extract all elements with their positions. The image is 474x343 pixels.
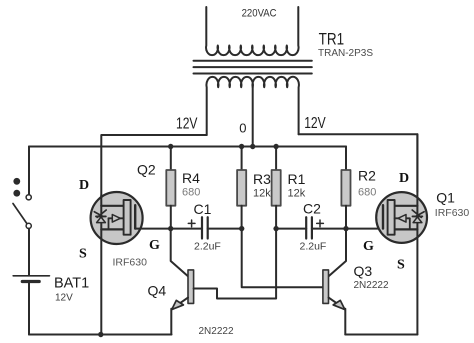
mosfet Q2 body diode bent tick (94, 210, 106, 217)
node junction Q2 source on bottom rail (98, 332, 103, 337)
svg-text:BAT1: BAT1 (54, 276, 89, 292)
resistor R3 bottom lead (241, 206, 243, 229)
mosfet Q1 source arrow head (398, 215, 406, 223)
svg-text:12V: 12V (304, 115, 326, 132)
svg-text:Q3: Q3 (354, 263, 373, 279)
transformer TR1 center tap wire to 12V rail (252, 87, 254, 146)
mosfet Q1 source stub (394, 228, 418, 230)
mosfet Q1 body diode bent tick (412, 210, 424, 217)
svg-text:R4: R4 (182, 170, 200, 186)
switch SW1 bottom terminal (26, 223, 31, 228)
svg-text:S: S (79, 247, 87, 262)
switch actuator dot 1 (13, 178, 20, 185)
svg-text:G: G (149, 238, 160, 253)
mosfet Q1 source arrow line (395, 217, 410, 219)
svg-text:D: D (79, 178, 89, 193)
svg-text:C1: C1 (194, 201, 212, 217)
node junction R1 top (273, 144, 278, 149)
mosfet Q2 body diode cathode bar (96, 215, 106, 217)
transistor Q3 base bar (323, 270, 329, 304)
svg-text:220VAC: 220VAC (242, 7, 277, 19)
transistor Q4 emitter (171, 298, 188, 335)
mosfet Q2 body diode triangle (97, 217, 106, 223)
mosfet Q1 body diode cathode bar (413, 215, 423, 217)
resistor R4 bottom lead (170, 206, 172, 229)
svg-text:12V: 12V (55, 293, 73, 304)
svg-text:2N2222: 2N2222 (354, 280, 389, 291)
svg-text:2.2uF: 2.2uF (300, 241, 327, 253)
wire: Q1 drain/source lead vertical (416, 134, 418, 334)
node D junction (R2/C2/Q1 gate/Q3 collector) (343, 226, 348, 231)
capacitor C1 left plate (201, 217, 203, 238)
svg-text:R3: R3 (253, 171, 271, 187)
mosfet Q2 drain stub (101, 205, 124, 207)
wire: bottom right ground rail (345, 334, 417, 336)
svg-text:12k: 12k (288, 188, 306, 200)
resistor R1 body (272, 170, 281, 206)
capacitor C2 left plate (305, 217, 307, 238)
svg-text:680: 680 (182, 187, 200, 199)
capacitor C1 plus sign (188, 220, 195, 227)
svg-text:R1: R1 (288, 171, 306, 187)
svg-text:D: D (399, 171, 409, 186)
mosfet Q1 arrow to source connector (409, 218, 411, 229)
transformer TR1 secondary winding (206, 7, 298, 55)
node B junction (R3/C1) (239, 226, 244, 231)
svg-text:TRAN-2P3S: TRAN-2P3S (318, 48, 373, 59)
capacitor C2 plus sign (317, 220, 324, 227)
mosfet Q2 arrow to source connector (108, 218, 110, 229)
svg-text:G: G (363, 239, 374, 254)
svg-text:Q2: Q2 (137, 162, 156, 178)
switch SW1 top terminal (26, 195, 31, 200)
wire: node C R1 bottom to C2 left plate (276, 228, 306, 230)
svg-text:680: 680 (358, 187, 376, 199)
switch SW1 blade (13, 204, 27, 224)
wire: battery branch from rail to switch (28, 147, 30, 195)
mosfet Q2 source arrow line (109, 217, 124, 219)
capacitor C1 right plate (207, 217, 209, 238)
wire: Q2 gate to node A and C1 left plate (135, 228, 202, 230)
transistor Q3 emitter (329, 298, 346, 335)
resistor R1 top lead (275, 147, 277, 171)
node junction R3 top (239, 144, 244, 149)
resistor R3 body (237, 170, 246, 206)
svg-text:S: S (397, 258, 405, 273)
wire: left drain feed from transformer to Q2 drain (101, 135, 206, 197)
svg-text:2.2uF: 2.2uF (194, 241, 221, 253)
wire: node D to Q1 gate (346, 228, 383, 230)
svg-text:12k: 12k (253, 188, 271, 200)
resistor R4 top lead (170, 147, 172, 171)
mosfet Q1 body (376, 192, 427, 243)
mosfet Q1 body diode triangle (413, 217, 422, 223)
mosfet Q2 source arrow head (112, 215, 120, 223)
svg-text:TR1: TR1 (319, 30, 345, 48)
wire: node A down to Q4 collector (171, 229, 188, 277)
svg-text:IRF630: IRF630 (435, 207, 470, 219)
node A junction (R4/C1/Q2 gate/Q4 collector) (168, 226, 173, 231)
node junction R4 top (168, 144, 173, 149)
svg-text:Q4: Q4 (148, 283, 167, 299)
resistor R2 top lead from rail corner (345, 147, 347, 171)
transistor Q4 emitter arrow head (172, 300, 184, 309)
mosfet Q2 source stub (101, 228, 124, 230)
resistor R1 bottom lead (275, 206, 277, 229)
wire: node D down to Q3 collector (329, 229, 346, 277)
resistor R4 body (166, 170, 175, 206)
wire: C2 right plate to node D (312, 228, 346, 230)
battery BAT1 negative plate (22, 280, 39, 283)
mosfet Q2 gate bar (134, 205, 136, 228)
resistor R2 body (341, 170, 350, 206)
mosfet Q2 body (91, 192, 143, 244)
transformer TR1 core (194, 61, 312, 74)
node C junction (R1/C2) (273, 226, 278, 231)
wire: Q4 base to node C path (194, 229, 277, 299)
svg-text:12V: 12V (176, 116, 198, 133)
node junction center tap (250, 144, 255, 149)
mosfet Q1 channel plate (388, 200, 395, 235)
mosfet Q2 channel plate (124, 200, 131, 235)
switch actuator dot 2 (13, 190, 20, 197)
wire: +12V top rail (29, 146, 346, 148)
mosfet Q1 gate bar (382, 205, 384, 228)
battery BAT1 positive plate (13, 275, 49, 277)
wire: C1 right plate to node B (208, 228, 242, 230)
svg-text:2N2222: 2N2222 (199, 326, 234, 337)
wire: battery negative to bottom rail (28, 282, 30, 335)
svg-text:IRF630: IRF630 (113, 257, 148, 269)
svg-text:R2: R2 (358, 168, 376, 184)
svg-text:C2: C2 (303, 201, 321, 217)
transistor Q3 emitter arrow head (333, 300, 345, 309)
wire: switch to battery positive (28, 229, 30, 275)
svg-text:0: 0 (239, 120, 246, 135)
wire: node B down to Q3 base (242, 229, 323, 288)
transistor Q4 base bar (188, 270, 194, 304)
wire: right drain feed from transformer to Q1 drain (299, 134, 418, 192)
wire: Q2 drain/source lead vertical (100, 195, 102, 335)
svg-text:Q1: Q1 (436, 190, 455, 206)
resistor R2 bottom lead (345, 206, 347, 229)
resistor R3 top lead (241, 147, 243, 171)
mosfet Q1 drain stub (394, 205, 418, 207)
transformer TR1 primary winding (206, 77, 298, 135)
capacitor C2 right plate (311, 217, 313, 238)
wire: bottom left ground rail (29, 334, 172, 336)
